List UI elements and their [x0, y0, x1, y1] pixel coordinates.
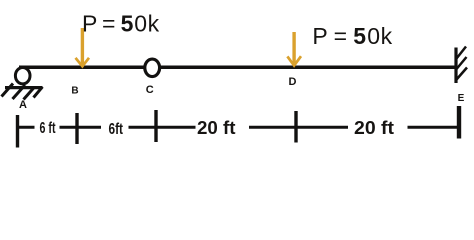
svg-text:E: E: [458, 93, 465, 104]
svg-text:P=50k: P=50k: [312, 23, 392, 49]
dimension line segment 2: [60, 126, 102, 129]
dimension line segment 1: [18, 126, 35, 129]
dimension line segment 3: [129, 126, 196, 129]
load arrow P at B: head: [76, 58, 90, 67]
support E hatch 1: [457, 47, 467, 59]
support E hatch 2: [457, 57, 467, 69]
dimension tick at D: [294, 111, 297, 143]
svg-text:6 ft: 6 ft: [40, 120, 56, 137]
svg-text:20 ft: 20 ft: [197, 118, 236, 138]
roller support A: circle: [15, 68, 30, 84]
support A hatch 4: [34, 87, 43, 98]
dimension tick at B: [75, 113, 78, 144]
load arrow P at D: head: [287, 56, 301, 65]
support A hatch 1: [2, 84, 14, 97]
internal hinge C: [145, 59, 160, 77]
svg-text:A: A: [19, 99, 27, 111]
support A hatch 3: [24, 87, 35, 100]
svg-text:D: D: [289, 76, 297, 88]
dimension tick at C: [154, 110, 157, 142]
svg-text:6ft: 6ft: [109, 121, 124, 138]
dimension tick at E: [457, 106, 461, 139]
svg-text:B: B: [71, 86, 78, 97]
support A hatch 2: [13, 85, 26, 99]
support E hatch 3: [457, 68, 468, 80]
fixed support E: wall line: [454, 48, 457, 84]
dimension tick at A: [16, 115, 19, 148]
load arrow P at B: shaft: [81, 28, 84, 64]
svg-text:20 ft: 20 ft: [354, 118, 394, 138]
svg-text:P=50k: P=50k: [82, 11, 160, 37]
beam (member A-E): [19, 66, 456, 70]
dimension line segment 5: [408, 126, 460, 129]
support A ground line: [5, 86, 43, 89]
load arrow P at D: shaft: [292, 32, 295, 63]
dimension line segment 4: [249, 126, 348, 129]
svg-text:C: C: [146, 84, 154, 96]
